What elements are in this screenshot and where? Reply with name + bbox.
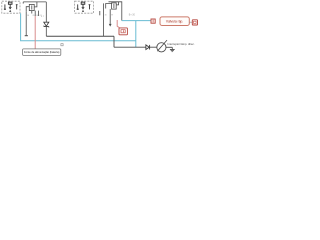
wire red: K1 to battery [34,16,36,49]
svg-text:30: 30 [36,15,38,17]
diode D1 [44,22,49,27]
ground [170,47,175,51]
relay K2 contact lead to bus [103,3,105,36]
wire junction drop [113,36,115,47]
svg-text:8 7: 8 7 [41,16,45,18]
relay K2 right link [116,2,118,5]
svg-text:Fonte de alimentação (bateria): Fonte de alimentação (bateria) [24,50,59,54]
relay K1 top wire [23,2,46,4]
diode D1 anode lead [45,2,47,22]
connector J1 [151,19,155,23]
solenoid module (red box) [119,28,127,35]
wire blue net: S1 to bus [21,13,136,40]
relay K1 pin stubs [26,11,38,36]
svg-text:B+ 30: B+ 30 [129,15,136,17]
pin labels K2 [105,15,114,17]
S1 coil [8,2,12,9]
relay K1 coil box [29,4,34,10]
wire cyan: K2 to valve [122,20,151,22]
S2 right terminal [89,5,91,10]
wire dark bus [46,35,114,37]
end plug (red box) [192,20,197,25]
tiny junction marker [61,44,63,46]
sensor unit S2 dashed enclosure [75,1,94,13]
svg-text:Interruptor lâmp. direc.: Interruptor lâmp. direc. [168,42,195,46]
relay K2 contact bracket [106,4,112,9]
wire to ground [166,46,172,48]
diode D2 [146,45,150,50]
svg-text:86: 86 [27,15,29,17]
wire cyan riser [135,21,137,48]
battery box [23,49,61,56]
wire red: K2 to solenoid [117,20,119,28]
wire bottom to lamp [114,46,157,48]
S1 lower contact [9,10,11,12]
relay K1 contact bracket [26,7,29,12]
svg-text:Válvula ráp.: Válvula ráp. [166,20,183,24]
S2 coil [81,2,85,9]
diode D1 cathode lead [45,27,47,37]
svg-text:87: 87 [111,15,113,17]
relay K2 pin stub [99,11,101,15]
link to end plug [189,21,192,23]
sensor unit S1 dashed enclosure [2,1,20,13]
S2 left terminal [77,4,79,9]
lamp / actuator L1 [157,40,167,52]
relay K1 right link [34,2,37,7]
valve box [160,17,189,26]
svg-text:85: 85 [33,15,35,17]
S1 right terminal [16,5,18,10]
pin labels K1 [27,15,41,17]
relay K2 top wire [109,2,122,21]
ground terminal bar under K1 [25,35,28,37]
svg-text:30: 30 [105,15,107,17]
relay K2 coil box [112,3,117,9]
S2 lower contact [82,10,84,12]
arrow to supply under K2 [109,9,112,27]
S1 left terminal [4,4,6,9]
